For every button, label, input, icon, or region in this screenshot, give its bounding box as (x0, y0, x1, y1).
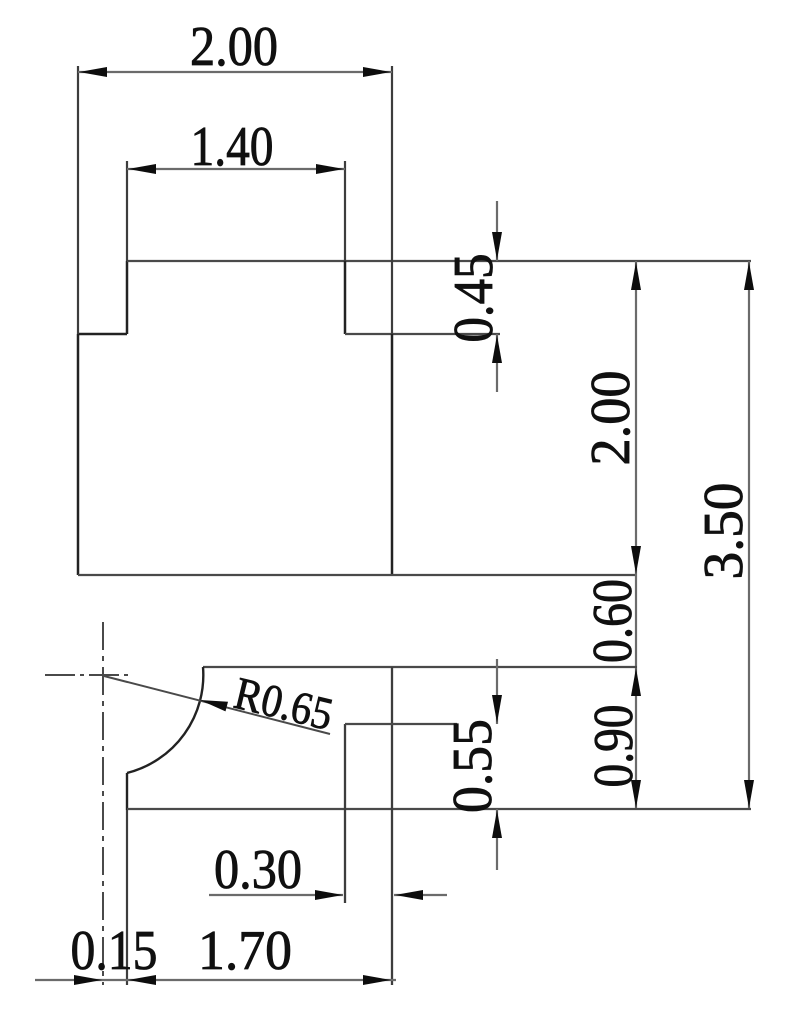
extension line right for dim 2.00 (391, 66, 393, 334)
arrowhead right of dim 2.00 (363, 67, 391, 77)
centerline horizontal dash-dot (45, 674, 130, 676)
arrowhead up of dim 0.90 (631, 668, 641, 696)
svg-text:0.55: 0.55 (442, 719, 504, 813)
centerline vertical dash-dot (102, 622, 104, 985)
dimension line 0.90 vertical (635, 667, 637, 809)
arrowhead left tip of dim 0.30 (395, 890, 423, 900)
dimension 0.45 lower arrow segment (496, 334, 498, 392)
arrowhead right tip of dim 1.70 (363, 975, 391, 985)
arrowhead down of dim 0.90 (631, 780, 641, 808)
bottom view outline: top edge plus right extension line (203, 666, 637, 668)
bottom view outline: concave fillet arc R0.65 (127, 667, 203, 773)
bottom view outline: left edge (126, 773, 128, 810)
top view outline: tab left side (126, 261, 129, 334)
extension line left edge for dim 1.70 (126, 810, 128, 985)
top view outline: right shoulder edge plus extension line (345, 333, 500, 335)
extension line left for dim 1.40 (126, 161, 128, 261)
svg-text:0.45: 0.45 (443, 254, 505, 343)
svg-text:0.15: 0.15 (71, 920, 158, 982)
arrowhead left tip of dim 1.70 (128, 975, 156, 985)
arrowhead of R0.65 leader (200, 700, 228, 711)
top view outline: tab right side (344, 261, 347, 334)
bottom view step edge vertical plus lower extension line (344, 724, 346, 903)
arrowhead down tip of dim 0.55 (492, 695, 502, 723)
svg-text:0.30: 0.30 (214, 839, 302, 901)
leader line for R0.65 (104, 676, 330, 734)
dimension line 0.15 and 1.70 bottom (35, 979, 396, 981)
bottom view outline: right edge plus lower extension line (391, 667, 393, 985)
arrowhead up tip of dim 0.55 (492, 810, 502, 838)
svg-text:0.60: 0.60 (582, 579, 644, 663)
dimension 0.55 lower arrow segment (496, 809, 498, 870)
top view outline: right edge (391, 334, 394, 575)
dimension line 2.00 horizontal (78, 71, 392, 73)
svg-text:2.00: 2.00 (580, 371, 642, 466)
dimension line 0.60 vertical (635, 575, 637, 667)
svg-text:3.50: 3.50 (693, 483, 755, 580)
top view outline: left shoulder edge (78, 333, 127, 336)
svg-text:0.90: 0.90 (583, 705, 645, 788)
dimension line 3.50 vertical (748, 261, 750, 809)
arrowhead right tip of dim 0.30 (315, 890, 343, 900)
svg-text:1.70: 1.70 (198, 920, 292, 982)
arrowhead down tip of dim 0.45 (492, 232, 502, 260)
dimension line 1.40 horizontal (127, 168, 345, 170)
arrowhead right tip at centerline of dim 0.15 (74, 975, 102, 985)
arrowhead left of dim 2.00 (79, 67, 107, 77)
svg-text:1.40: 1.40 (191, 116, 274, 178)
dimension 0.45 upper arrow segment (496, 201, 498, 261)
arrowhead up tip of dim 0.45 (492, 335, 502, 363)
dimension 0.55 upper arrow segment (496, 659, 498, 724)
top view outline: tab top edge plus right extension line (127, 260, 751, 262)
dimension 0.30 right line segment (394, 894, 447, 896)
arrowhead up of vertical dim 2.00 (631, 262, 641, 290)
arrowhead right of dim 1.40 (316, 164, 344, 174)
top view outline: left edge (77, 334, 80, 575)
extension line left for dim 2.00 (77, 66, 79, 334)
arrowhead down of vertical dim 2.00 (631, 546, 641, 574)
dimension line 2.00 vertical (635, 261, 637, 575)
bottom view step edge horizontal plus right extension line (345, 723, 457, 725)
arrowhead up of dim 3.50 (744, 262, 754, 290)
extension line right for dim 1.40 (344, 161, 346, 261)
dimension 0.30 left line segment (209, 894, 343, 896)
top view outline: bottom edge plus right extension line (78, 574, 637, 576)
arrowhead left of dim 1.40 (128, 164, 156, 174)
svg-text:2.00: 2.00 (190, 16, 278, 78)
arrowhead down of dim 3.50 (744, 780, 754, 808)
bottom view outline: bottom edge plus right extension line (127, 808, 751, 810)
